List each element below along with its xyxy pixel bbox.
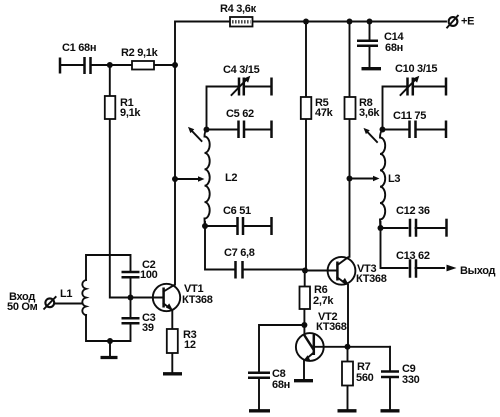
wire R6 branch to VT2 base bbox=[303, 271, 305, 335]
label R3 bbox=[183, 329, 197, 351]
wire L2 bottom down to C7 row bbox=[205, 226, 305, 270]
label C7 bbox=[224, 247, 255, 259]
svg-text:330: 330 bbox=[402, 374, 420, 386]
wire VT1 collector vertical (rail to VT1) bbox=[174, 22, 176, 285]
wire ground stub under L1 box bbox=[109, 341, 111, 356]
label C9 bbox=[402, 363, 420, 386]
svg-text:R4 3,6к: R4 3,6к bbox=[220, 3, 257, 15]
resistor R8 bbox=[345, 97, 356, 119]
terminal input circle bbox=[44, 296, 57, 309]
transistor VT2 bbox=[296, 333, 324, 361]
wire node A to VT3 base bbox=[305, 270, 337, 272]
resistor R6 bbox=[300, 287, 311, 310]
svg-text:47k: 47k bbox=[315, 107, 334, 119]
junction L2 bottom bbox=[202, 223, 208, 229]
label C6 bbox=[223, 205, 251, 217]
capacitor C2 bbox=[122, 272, 140, 277]
junction L2 tap bbox=[172, 176, 178, 182]
svg-text:КТ368: КТ368 bbox=[356, 273, 387, 285]
junction R5 rail bbox=[303, 19, 309, 25]
label R4 bbox=[220, 3, 257, 15]
label C13 bbox=[396, 250, 430, 262]
capacitor C8 bbox=[248, 373, 270, 378]
junction L3 top bbox=[380, 127, 386, 133]
resistor R5 bbox=[301, 97, 312, 119]
resistor R7 bbox=[342, 362, 353, 386]
svg-text:560: 560 bbox=[356, 372, 374, 384]
junction L3 tap bbox=[347, 176, 353, 182]
capacitor C5 bbox=[239, 121, 245, 139]
svg-text:68н: 68н bbox=[385, 42, 403, 54]
capacitor C11 bbox=[410, 121, 416, 139]
svg-text:68н: 68н bbox=[272, 379, 290, 391]
label C1 bbox=[62, 42, 96, 54]
label VT3 bbox=[356, 263, 387, 285]
ground under VT2 bbox=[294, 379, 313, 382]
wire C10 bracket bbox=[383, 87, 445, 130]
label +E bbox=[461, 16, 474, 28]
svg-text:50 Ом: 50 Ом bbox=[7, 301, 38, 313]
wire VT3 emitter down to node B and to C9 bbox=[348, 285, 390, 347]
wire L2 bottom to C6 row bbox=[205, 222, 271, 226]
label R8 bbox=[359, 97, 380, 119]
svg-text:C7 6,8: C7 6,8 bbox=[224, 247, 255, 259]
svg-text:C5 62: C5 62 bbox=[226, 108, 254, 120]
capacitor C9 bbox=[381, 372, 399, 378]
wire L3 tap bbox=[350, 178, 375, 180]
svg-text:C1 68н: C1 68н bbox=[62, 42, 96, 54]
wire input terminal to L1 bbox=[55, 303, 82, 305]
junction VT1 base bbox=[128, 295, 134, 301]
label VT2 bbox=[316, 311, 347, 333]
terminal tick C5 bbox=[270, 121, 273, 139]
wire L2 tap from collector line bbox=[175, 178, 200, 180]
junction C14 rail bbox=[367, 19, 373, 25]
label R1 bbox=[120, 97, 141, 119]
label C5 bbox=[226, 108, 254, 120]
svg-text:КТ368: КТ368 bbox=[316, 321, 347, 333]
label C10 bbox=[395, 63, 437, 75]
wire R5 branch bbox=[305, 22, 307, 271]
capacitor C4 variable bbox=[232, 76, 251, 96]
svg-text:2,7k: 2,7k bbox=[313, 295, 334, 307]
ground under R3 bbox=[163, 372, 182, 375]
wire L1 tank box outline bbox=[86, 255, 163, 341]
wire R7 branch bbox=[347, 347, 349, 410]
label Выход bbox=[460, 265, 496, 277]
svg-text:+E: +E bbox=[461, 16, 474, 28]
label C3 bbox=[142, 312, 156, 334]
label VT1 bbox=[182, 283, 213, 306]
wire VT3 collector / R8 branch bbox=[349, 22, 351, 257]
label C11 bbox=[393, 110, 426, 122]
ground under L1 box bbox=[101, 356, 118, 359]
wire VT1 emitter to R3 and ground bbox=[171, 311, 173, 373]
svg-text:3,6k: 3,6k bbox=[359, 107, 380, 119]
svg-text:R2 9,1k: R2 9,1k bbox=[121, 47, 159, 59]
capacitor C7 bbox=[236, 261, 243, 279]
wire C13 row to output bbox=[381, 228, 445, 268]
label R7 bbox=[356, 361, 374, 384]
svg-text:39: 39 bbox=[142, 322, 154, 334]
label C14 bbox=[384, 31, 404, 54]
wire C4 bracket bbox=[207, 87, 272, 130]
svg-text:C6 51: C6 51 bbox=[223, 205, 251, 217]
junction node B bbox=[345, 344, 351, 350]
transistor VT1 bbox=[153, 284, 180, 311]
inductor L3 bbox=[380, 130, 385, 229]
capacitor C1 bbox=[85, 57, 91, 74]
ground under C8 bbox=[249, 409, 270, 412]
label C8 bbox=[272, 368, 290, 391]
ground under C9 bbox=[381, 409, 400, 412]
tap arrow L2 bbox=[198, 176, 205, 182]
capacitor C3 bbox=[122, 318, 140, 323]
label Вход 50 Ом bbox=[7, 291, 38, 313]
wire VT2 collector to node B bbox=[314, 346, 348, 348]
svg-text:Выход: Выход bbox=[460, 265, 496, 277]
svg-text:C11 75: C11 75 bbox=[393, 110, 426, 122]
junction L2 top bbox=[204, 127, 210, 133]
tap arrow L3 bbox=[373, 176, 380, 182]
svg-text:L2: L2 bbox=[225, 172, 237, 184]
wire C9 branch bbox=[389, 347, 391, 410]
terminal tick C1 input bbox=[59, 58, 62, 74]
junction L3 bottom bbox=[378, 225, 384, 231]
wire C1 input row to R2 junction bbox=[60, 64, 175, 66]
junction R2-collector line bbox=[172, 62, 178, 68]
label C4 bbox=[223, 64, 260, 76]
terminal output arrow bbox=[447, 265, 457, 272]
svg-text:9,1k: 9,1k bbox=[120, 107, 141, 119]
capacitor C13 bbox=[410, 259, 416, 278]
transistor VT3 bbox=[328, 257, 356, 285]
wire L3 bottom to C12 row bbox=[381, 222, 445, 228]
wire C5 row bbox=[207, 129, 272, 131]
wire C8 branch bbox=[259, 325, 304, 410]
svg-text:L1: L1 bbox=[60, 288, 72, 300]
svg-text:КТ368: КТ368 bbox=[182, 294, 213, 306]
resistor R3 bbox=[167, 329, 178, 353]
capacitor C10 variable bbox=[401, 76, 420, 96]
label R5 bbox=[315, 97, 334, 119]
svg-text:C4 3/15: C4 3/15 bbox=[223, 64, 260, 76]
svg-text:12: 12 bbox=[184, 339, 196, 351]
capacitor C6 bbox=[238, 217, 244, 235]
junction VT2 base bbox=[301, 322, 307, 328]
capacitor C14 bbox=[357, 41, 378, 46]
adjust arrow L2 bbox=[188, 127, 202, 141]
svg-text:C12 36: C12 36 bbox=[396, 205, 430, 217]
label L3 bbox=[388, 173, 400, 185]
inductor L1 bbox=[82, 280, 86, 315]
label R2 bbox=[121, 47, 159, 59]
svg-text:C13 62: C13 62 bbox=[396, 250, 430, 262]
wire +E top rail bbox=[176, 21, 447, 23]
terminal tick C10 bbox=[445, 78, 448, 96]
terminal +E circle bbox=[447, 15, 459, 28]
resistor R4 bbox=[230, 17, 253, 27]
label C12 bbox=[396, 205, 430, 217]
terminal tick C4 bbox=[270, 78, 273, 96]
wire C11 row bbox=[383, 129, 445, 131]
label L2 bbox=[225, 172, 237, 184]
terminal tick C11 bbox=[445, 121, 448, 139]
wire VT2 emitter to ground bbox=[303, 361, 305, 380]
label L1 bbox=[60, 288, 72, 300]
terminal tick C6 bbox=[270, 217, 273, 235]
ground under R7 bbox=[338, 409, 357, 412]
adjust arrow L3 bbox=[364, 128, 378, 142]
resistor R1 bbox=[105, 96, 116, 119]
resistor R2 bbox=[132, 61, 154, 70]
terminal tick C12 bbox=[445, 219, 448, 237]
junction node A bbox=[302, 268, 308, 274]
svg-text:100: 100 bbox=[140, 269, 158, 281]
junction R8 rail bbox=[347, 19, 353, 25]
svg-text:L3: L3 bbox=[388, 173, 400, 185]
ground under C14 bbox=[362, 67, 382, 70]
junction L1 ground bbox=[107, 338, 113, 344]
capacitor C12 bbox=[410, 219, 416, 237]
junction R2-R1 bbox=[107, 62, 113, 68]
svg-text:C10 3/15: C10 3/15 bbox=[395, 63, 437, 75]
label C2 bbox=[140, 259, 158, 281]
wire C14 branch bbox=[369, 22, 371, 68]
label R6 bbox=[313, 284, 334, 307]
inductor L2 bbox=[205, 130, 210, 227]
wire R1 branch down to VT1 base row bbox=[110, 65, 163, 298]
